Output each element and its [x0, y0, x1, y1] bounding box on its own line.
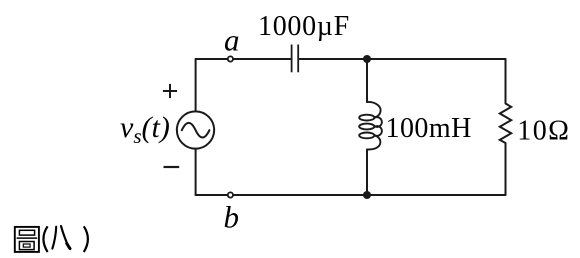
- figure caption close paren: [84, 226, 88, 252]
- junction node bottom: [363, 191, 371, 199]
- svg-text:b: b: [224, 200, 240, 235]
- wire left vertical bottom (source bottom lead): [195, 150, 197, 195]
- wire right vertical top (resistor top lead): [505, 59, 507, 104]
- resistor R 10ohm zigzag: [500, 104, 511, 144]
- wire left vertical top (source top lead): [195, 59, 197, 110]
- voltage source sine wave: [182, 123, 210, 138]
- svg-text:10Ω: 10Ω: [517, 116, 570, 147]
- capacitor C 1000uF plates: [292, 45, 299, 73]
- voltage source VS circle: [177, 111, 214, 148]
- svg-text:1000µF: 1000µF: [258, 11, 350, 42]
- terminal b (open circle): [228, 192, 233, 197]
- wire middle branch top (inductor top lead): [366, 59, 368, 102]
- wire bottom horizontal: [196, 194, 506, 196]
- svg-text:a: a: [224, 23, 240, 58]
- inductor L 100mH coil: [359, 102, 382, 150]
- terminal a (open circle): [228, 56, 233, 61]
- figure caption glyph eight: [52, 226, 70, 249]
- plus polarity mark: [163, 84, 177, 98]
- minus polarity mark: [164, 166, 180, 168]
- junction node top: [363, 55, 371, 63]
- figure caption open paren: [43, 226, 47, 252]
- wire middle branch bottom (inductor bottom lead): [366, 150, 368, 196]
- wire right vertical bottom (resistor bottom lead): [505, 143, 507, 195]
- figure caption glyph tu (picture): [15, 227, 39, 252]
- wire capacitor to top junction: [299, 58, 367, 60]
- wire terminal a to capacitor: [234, 58, 291, 60]
- wire top junction to top-right corner: [367, 58, 506, 60]
- wire top-left horizontal segment: [196, 58, 228, 60]
- svg-text:vs(t): vs(t): [120, 111, 170, 148]
- svg-text:100mH: 100mH: [386, 113, 472, 144]
